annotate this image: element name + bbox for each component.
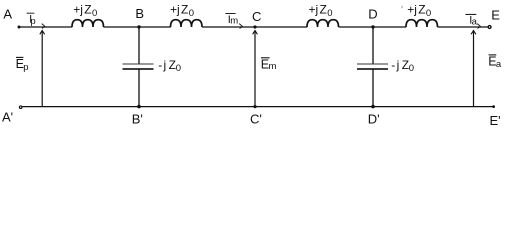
label node E' [490,113,501,128]
voltage arrow Ea [471,31,476,107]
label +jZ0 L1 [73,3,97,20]
wire B to capacitor C1 [138,27,140,64]
label Ip [27,13,36,27]
svg-text:E: E [491,8,500,23]
capacitor C1 -jZ0 [123,64,154,69]
wire top L4-E [438,26,490,28]
label node A' [2,109,13,124]
svg-text:0: 0 [189,8,194,19]
svg-text:D': D' [368,111,380,126]
label Em [261,58,277,72]
wire D to capacitor C2 [372,27,374,64]
label node B [135,6,144,21]
svg-text:0: 0 [176,63,181,74]
inductor L2 +jZ0 [171,20,203,27]
svg-text:m: m [230,16,238,27]
inductor L1 +jZ0 [72,20,104,27]
node dot C [253,25,256,28]
svg-text:0: 0 [92,8,97,19]
label Ea [488,55,502,70]
label node D [368,7,377,22]
wire top L3-L4 [339,26,407,28]
svg-text:-: - [158,58,162,72]
label Ep [16,57,29,73]
terminal dot E' [492,105,495,108]
stray faint mark [401,6,403,8]
svg-text:Z: Z [84,3,91,17]
svg-text:C': C' [250,112,262,127]
label Im [225,14,238,27]
label -jZ0 C1 [158,58,181,74]
terminal circle A' [19,106,22,109]
svg-text:p: p [23,62,28,73]
svg-text:A: A [3,6,12,21]
node dot D' [371,105,375,109]
wire bottom A'-E' [22,106,494,108]
wire top L2-L3 [202,26,307,28]
current arrow Ia [477,24,480,29]
svg-text:0: 0 [327,8,332,19]
wire capacitor C1 to B' [138,69,140,106]
current arrow Ip [42,24,45,29]
svg-text:+j: +j [73,3,83,17]
svg-text:j: j [163,58,167,72]
svg-text:B: B [135,6,144,21]
node dot B [137,25,140,28]
svg-text:D: D [368,7,377,22]
svg-text:B': B' [132,111,143,126]
svg-text:+j: +j [407,3,417,17]
label +jZ0 L2 [170,3,194,20]
terminal dot A [18,26,21,29]
label node E [491,8,500,23]
voltage arrow Em [253,31,258,107]
voltage arrow Ep [40,31,45,107]
capacitor C2 -jZ0 [357,64,388,69]
label node B' [132,111,143,126]
svg-text:a: a [472,16,478,27]
svg-text:p: p [30,16,35,27]
label -jZ0 C2 [391,58,414,74]
svg-text:+j: +j [309,3,319,17]
current arrow Im [239,24,242,29]
node dot B' [137,105,141,109]
svg-text:a: a [496,59,502,70]
label +jZ0 L3 [309,3,333,20]
label +jZ0 L4 [407,3,431,20]
wire top L1-L2 [104,26,171,28]
node dot C' [253,105,256,108]
svg-text:Z: Z [320,3,327,17]
wire capacitor C2 to D' [372,69,374,106]
svg-text:0: 0 [409,63,414,74]
svg-text:0: 0 [426,8,431,19]
label Ia [465,14,477,27]
svg-text:Z: Z [418,3,425,17]
inductor L4 +jZ0 [406,20,438,27]
svg-text:j: j [396,58,400,72]
label node D' [368,111,380,126]
label node C' [250,112,262,127]
svg-text:-: - [391,58,395,72]
svg-text:C: C [252,9,261,24]
node dot D [371,25,374,28]
svg-text:m: m [269,61,277,72]
label node C [252,9,261,24]
terminal circle E [488,26,491,29]
svg-text:Z: Z [181,3,188,17]
inductor L3 +jZ0 [307,20,339,27]
label node A [3,6,12,21]
svg-text:E': E' [490,113,501,128]
svg-text:+j: +j [170,3,180,17]
svg-text:A': A' [2,109,13,124]
wire top A-L1 [19,26,72,28]
